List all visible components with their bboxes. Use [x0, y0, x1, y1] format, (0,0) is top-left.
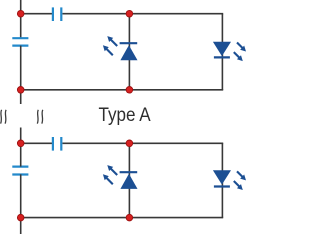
wire middle branch (circuit 1)	[128, 14, 130, 90]
wire middle branch (circuit 2)	[128, 143, 130, 217]
wire stub between circuits	[20, 128, 22, 144]
wire right rail (circuit 1)	[221, 14, 223, 90]
node dot top-left (circuit 2)	[17, 140, 24, 147]
break marks left pair	[1, 110, 7, 124]
node dot top-left (circuit 1)	[17, 10, 24, 17]
capacitor C3 series (circuit 2)	[53, 137, 61, 151]
node dot top-middle (circuit 1)	[126, 10, 133, 17]
wire top rail right segment (circuit 2)	[63, 142, 224, 144]
wire left rail lower (circuit 1)	[20, 46, 22, 104]
wire bottom rail (circuit 2)	[21, 217, 224, 219]
capacitor C2 shunt (circuit 1)	[12, 38, 28, 45]
wire right rail (circuit 2)	[221, 143, 223, 217]
wire left rail upper (circuit 2)	[20, 143, 22, 166]
capacitor C1 series (circuit 1)	[53, 7, 61, 21]
LED D2 right (circuit 1)	[213, 42, 246, 61]
node dot bottom-left (circuit 1)	[17, 87, 24, 94]
wire bottom rail (circuit 1)	[21, 89, 224, 91]
wire left rail lower (circuit 2)	[20, 174, 22, 234]
node dot bottom-left (circuit 2)	[17, 214, 24, 221]
LED D4 right (circuit 2)	[213, 170, 246, 190]
wire top rail right segment (circuit 1)	[63, 13, 224, 15]
node dot bottom-middle (circuit 1)	[126, 87, 133, 94]
svg-text:Type A: Type A	[99, 105, 151, 126]
node dot bottom-middle (circuit 2)	[126, 214, 133, 221]
capacitor C4 shunt (circuit 2)	[12, 167, 28, 175]
break marks right pair	[37, 110, 43, 124]
wire top rail left segment (circuit 1)	[21, 13, 52, 15]
wire top rail left segment (circuit 2)	[21, 142, 52, 144]
node dot top-middle (circuit 2)	[126, 140, 133, 147]
LED D3 middle (circuit 2)	[103, 165, 138, 189]
LED D1 middle (circuit 1)	[103, 36, 138, 60]
wire left rail upper (circuit 1)	[20, 0, 22, 38]
